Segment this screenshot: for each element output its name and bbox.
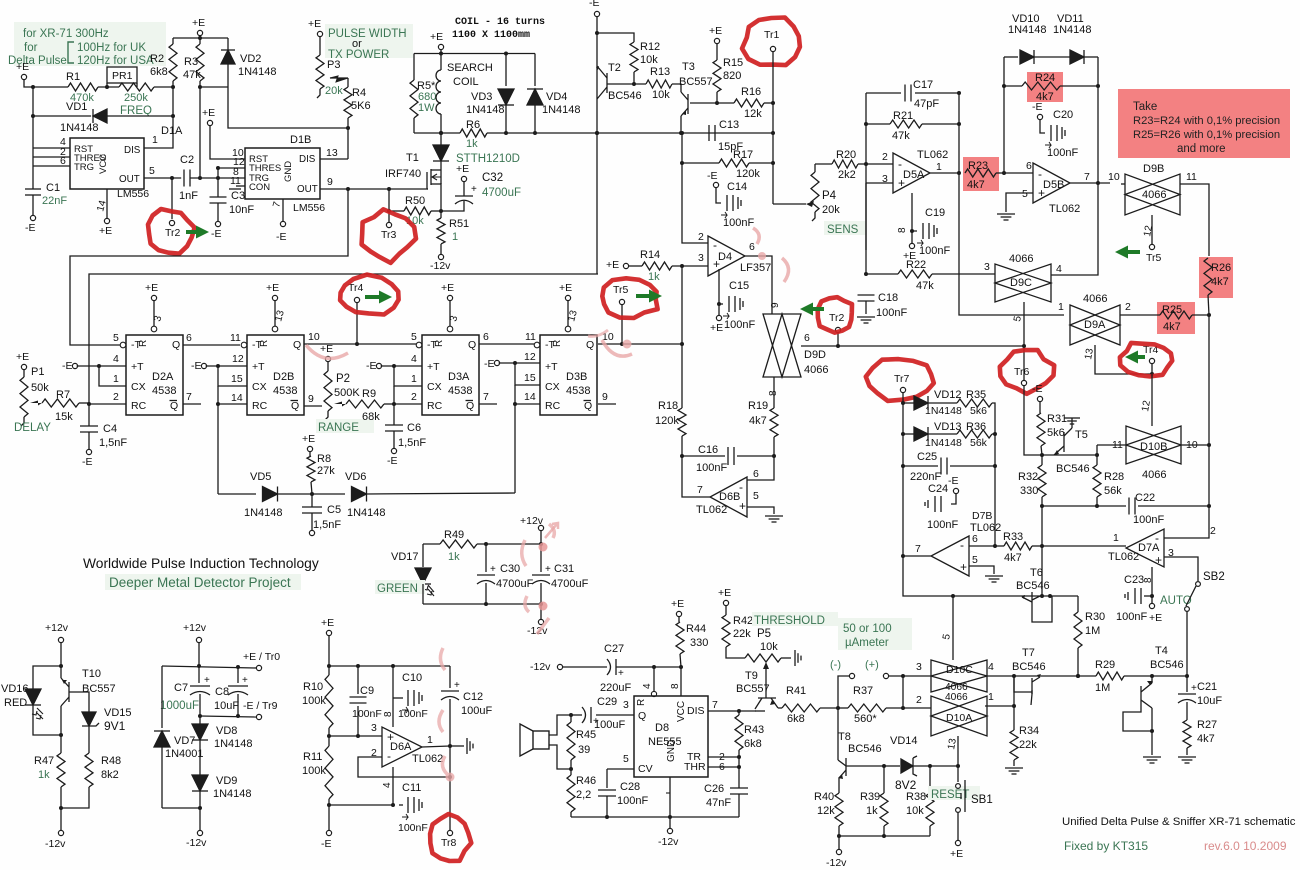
svg-text:CON: CON: [249, 182, 270, 193]
svg-text:Tr3: Tr3: [381, 229, 397, 241]
svg-text:+E: +E: [145, 282, 158, 294]
svg-text:Tr8: Tr8: [441, 837, 457, 849]
pink instruction box: [1118, 89, 1290, 158]
svg-text:D5B: D5B: [1043, 179, 1064, 191]
svg-text:RESET: RESET: [931, 789, 969, 801]
label PULSE WIDTH / TX POWER (green): [325, 24, 413, 58]
svg-text:R: R: [259, 340, 270, 347]
svg-text:56k: 56k: [970, 437, 988, 449]
potentiometer P4 20k SENS: [773, 203, 806, 205]
svg-text:THR: THR: [684, 761, 706, 773]
svg-text:-E: -E: [484, 358, 495, 370]
svg-text:T2: T2: [608, 62, 621, 74]
svg-text:-E: -E: [191, 360, 202, 372]
svg-text:1N4148: 1N4148: [1053, 24, 1092, 36]
label 50 or 100 uAmeter (green): [838, 618, 912, 650]
svg-text:T3: T3: [682, 61, 695, 73]
D5B pin5 to ground: [1006, 193, 1033, 212]
svg-text:100nF: 100nF: [352, 708, 382, 720]
svg-text:VCC: VCC: [676, 701, 687, 722]
svg-text:+E / Tr0: +E / Tr0: [243, 651, 280, 663]
svg-text:R33: R33: [1003, 531, 1023, 543]
svg-text:BC546: BC546: [848, 743, 882, 755]
D9D control bus to Tr2/Tr6: [801, 345, 1024, 347]
D1B THRES/TRG junction and C3: [218, 167, 245, 169]
svg-text:50k: 50k: [31, 382, 49, 394]
svg-text:39: 39: [578, 744, 590, 756]
test point Tr4 with red circle and green arrow: [356, 303, 358, 344]
green arrow at Tr4 second: [1125, 351, 1145, 364]
svg-text:20k: 20k: [822, 204, 840, 216]
svg-text:100Hz for UK: 100Hz for UK: [77, 42, 146, 54]
svg-text:4066: 4066: [945, 692, 968, 703]
svg-text:22nF: 22nF: [42, 195, 67, 207]
svg-text:47pF: 47pF: [914, 98, 939, 110]
svg-text:+E: +E: [456, 163, 469, 175]
svg-text:2k2: 2k2: [838, 169, 856, 181]
op-amp D5A TL062: [866, 163, 893, 165]
svg-text:C12: C12: [463, 691, 483, 703]
svg-text:6k8: 6k8: [787, 713, 805, 725]
svg-text:4700uF: 4700uF: [496, 578, 534, 590]
svg-text:100nF: 100nF: [919, 245, 950, 257]
resistor R23 4k7 (highlighted): [963, 157, 999, 191]
svg-text:4538: 4538: [566, 385, 590, 397]
svg-text:RC: RC: [545, 400, 561, 412]
svg-text:9: 9: [327, 176, 333, 188]
svg-text:11: 11: [230, 175, 241, 187]
offset column to R18: [681, 266, 683, 408]
svg-text:10nF: 10nF: [229, 204, 254, 216]
resistor R39 1k: [883, 766, 885, 793]
svg-text:Tr2: Tr2: [165, 227, 181, 239]
svg-text:-E: -E: [211, 228, 222, 240]
wire R33 to D7A output: [1042, 545, 1126, 547]
svg-text:Q: Q: [584, 400, 592, 412]
svg-text:15: 15: [231, 373, 243, 385]
svg-text:+12v: +12v: [45, 622, 69, 634]
D2A Q-bar pin7 stub: [183, 403, 201, 405]
svg-text:C6: C6: [407, 422, 421, 434]
svg-text:500K: 500K: [334, 387, 360, 399]
splitter mid rail: [200, 716, 256, 717]
svg-text:5k6: 5k6: [970, 405, 987, 417]
svg-text:+E: +E: [709, 25, 722, 37]
Tr7 column down: [902, 393, 904, 556]
svg-text:2,2: 2,2: [576, 789, 591, 801]
svg-text:2: 2: [698, 231, 704, 243]
svg-text:+E: +E: [950, 848, 963, 860]
svg-text:8k2: 8k2: [101, 769, 119, 781]
svg-text:100nF: 100nF: [876, 307, 907, 319]
svg-text:Take: Take: [1133, 101, 1157, 113]
svg-text:100nF: 100nF: [723, 217, 754, 229]
T3 collector to bus: [680, 116, 682, 133]
svg-text:LM556: LM556: [117, 188, 149, 200]
D6A feedback loop pin2: [358, 757, 450, 777]
svg-text:VD7: VD7: [174, 735, 195, 747]
resistor R45 39: [570, 715, 572, 722]
svg-text:220uF: 220uF: [600, 682, 631, 694]
svg-text:R2: R2: [150, 53, 164, 65]
svg-text:R46: R46: [576, 775, 596, 787]
svg-text:C31: C31: [554, 563, 574, 575]
svg-text:+E: +E: [671, 598, 684, 610]
svg-text:R3: R3: [184, 56, 198, 68]
bias rail: [328, 636, 330, 666]
svg-text:4k7: 4k7: [1197, 733, 1215, 745]
svg-text:+E: +E: [559, 282, 572, 294]
svg-text:+T: +T: [252, 361, 265, 373]
trimmer PR1 250k FREQ: [107, 67, 137, 83]
svg-text:BC557: BC557: [736, 683, 770, 695]
svg-text:R25=R26 with 0,1% precision: R25=R26 with 0,1% precision: [1133, 129, 1280, 141]
D3B Q pin10 to R18 column: [598, 343, 682, 345]
svg-text:C27: C27: [604, 643, 624, 655]
svg-text:2: 2: [113, 391, 119, 403]
D3A Q pin6 to D3B trigger: [479, 343, 537, 345]
svg-text:rev.6.0 10.2009: rev.6.0 10.2009: [1204, 839, 1287, 853]
svg-text:4538: 4538: [152, 385, 176, 397]
pink scribble near D2B output: [306, 345, 348, 358]
svg-text:100nF: 100nF: [1047, 147, 1078, 159]
svg-text:-: -: [713, 238, 717, 252]
test point Tr3: [388, 189, 390, 211]
svg-text:CX: CX: [252, 381, 267, 393]
svg-text:Q: Q: [291, 400, 299, 412]
svg-text:+E: +E: [192, 17, 205, 29]
diode VD1 1N4148 feedback: [33, 115, 91, 117]
svg-text:T1: T1: [406, 152, 419, 164]
svg-text:4k7: 4k7: [1004, 552, 1022, 564]
svg-text:R50: R50: [405, 195, 425, 207]
coil top rail: [440, 50, 442, 54]
svg-text:-E: -E: [948, 475, 959, 487]
resistor R25 4k7 (highlighted): [1157, 302, 1195, 334]
svg-text:VCC: VCC: [98, 154, 109, 174]
svg-text:Worldwide Pulse Induction Tech: Worldwide Pulse Induction Technology: [83, 556, 319, 571]
svg-text:100uF: 100uF: [594, 719, 625, 731]
D3B pin14 column down to VD6 row: [514, 385, 516, 493]
D1A pin stubs 4/2/6: [33, 147, 70, 149]
svg-text:SEARCH: SEARCH: [447, 62, 493, 74]
resistor R5* 680 1W damping: [413, 54, 415, 81]
svg-text:11: 11: [1186, 171, 1197, 183]
svg-text:C15: C15: [729, 280, 749, 292]
red circle around Tr2: [148, 209, 195, 254]
IC D8 NE555: [634, 696, 708, 777]
resistor R38 10k: [929, 766, 931, 793]
svg-text:PULSE WIDTH: PULSE WIDTH: [328, 28, 407, 40]
svg-text:T6: T6: [1030, 567, 1043, 579]
svg-text:120k: 120k: [736, 168, 760, 180]
svg-text:-12v: -12v: [530, 661, 551, 673]
resistor R40 12k: [838, 778, 840, 793]
svg-text:1N4001: 1N4001: [165, 748, 204, 760]
splitter bottom rail to -12v: [162, 807, 200, 809]
svg-text:47k: 47k: [916, 280, 934, 292]
wire VD pair ends: [1003, 57, 1005, 86]
svg-text:1: 1: [452, 231, 458, 243]
reset switch SB1: [928, 786, 980, 800]
svg-text:BC546: BC546: [608, 90, 642, 102]
terminal -12v bottom: [838, 836, 840, 849]
svg-text:68k: 68k: [362, 411, 380, 423]
svg-text:6: 6: [483, 331, 489, 343]
svg-text:100k: 100k: [302, 695, 326, 707]
svg-text:1,5nF: 1,5nF: [99, 437, 127, 449]
svg-text:R6: R6: [466, 119, 480, 131]
svg-text:T4: T4: [1155, 645, 1168, 657]
svg-text:+: +: [204, 675, 210, 686]
T2 base wire: [607, 83, 646, 85]
D9B output to R26 column: [1180, 184, 1209, 256]
svg-text:50 or 100: 50 or 100: [843, 623, 892, 635]
svg-text:R26: R26: [1211, 262, 1231, 274]
svg-text:µAmeter: µAmeter: [845, 637, 889, 649]
potentiometer P3 20k: [319, 37, 321, 55]
svg-text:BC557: BC557: [679, 76, 713, 88]
svg-text:100nF: 100nF: [1116, 611, 1147, 623]
svg-text:DELAY: DELAY: [14, 422, 51, 434]
svg-text:8: 8: [383, 711, 394, 717]
resistor R42 22k: [725, 606, 727, 615]
svg-text:VD9: VD9: [216, 775, 237, 787]
resistor R51 1 current sense: [440, 211, 442, 218]
svg-text:VD1: VD1: [66, 101, 87, 113]
svg-text:VD5: VD5: [250, 471, 271, 483]
D2B pin14 column down to VD5: [217, 386, 219, 494]
svg-text:4066: 4066: [1009, 253, 1033, 265]
svg-text:Deeper Metal Detector Project: Deeper Metal Detector Project: [109, 575, 291, 590]
svg-text:C28: C28: [620, 781, 640, 793]
svg-text:330: 330: [690, 637, 708, 649]
R26 column down to C22 row and D7A pin2: [1208, 315, 1210, 506]
pink scribble near Tr5: [602, 340, 632, 356]
pink scribble near P4: [753, 228, 759, 244]
svg-text:1N4148: 1N4148: [347, 507, 386, 519]
svg-text:5K6: 5K6: [351, 100, 371, 112]
svg-text:R15: R15: [723, 57, 743, 69]
svg-text:D9C: D9C: [1010, 277, 1032, 289]
test point Tr6 with red circle: [1021, 380, 1026, 385]
splitter top rail: [162, 666, 256, 668]
svg-text:C21: C21: [1197, 681, 1217, 693]
capacitor C2 1nF coupling: [183, 170, 185, 187]
IC D3A +E top pin 3: [447, 295, 452, 300]
svg-text:1: 1: [411, 373, 417, 385]
bus pin4 D10C to R29 row: [985, 675, 1096, 677]
capacitor C5 1,5nF: [311, 494, 313, 507]
svg-text:4: 4: [113, 353, 119, 365]
svg-text:12: 12: [524, 351, 536, 363]
svg-text:C10: C10: [402, 672, 422, 684]
svg-text:Tr6: Tr6: [1014, 366, 1030, 378]
resistor R32 330: [1038, 465, 1046, 497]
analog switch D9A 4066: [1070, 305, 1120, 345]
svg-text:C20: C20: [1053, 109, 1073, 121]
svg-text:+E: +E: [710, 322, 723, 334]
capacitor C1 22nF: [32, 166, 34, 189]
svg-text:VD13: VD13: [934, 421, 962, 433]
svg-text:5: 5: [972, 554, 978, 566]
svg-text:100nF: 100nF: [398, 822, 428, 834]
svg-text:RANGE: RANGE: [318, 422, 359, 434]
svg-text:VD8: VD8: [216, 725, 237, 737]
svg-text:22k: 22k: [1019, 739, 1037, 751]
op-amp D6B TL062 (points left): [710, 477, 747, 517]
resistor R15 820: [716, 44, 718, 60]
D2B Q pin10 to D3A trigger and Tr4: [304, 343, 419, 345]
svg-text:R4: R4: [352, 87, 366, 99]
D4 output to D9D: [745, 256, 772, 314]
T1 source down to R50/R51 node: [440, 183, 442, 211]
svg-text:2: 2: [882, 151, 888, 163]
svg-text:R22: R22: [906, 259, 926, 271]
node R1/R2 down to D1A DIS (pin1): [144, 87, 173, 148]
svg-text:Tr5: Tr5: [1146, 252, 1162, 264]
pink scribbles near D6A output: [439, 648, 447, 774]
svg-text:C4: C4: [103, 423, 117, 435]
svg-text:-12v: -12v: [658, 836, 679, 848]
svg-text:C13: C13: [719, 119, 739, 131]
svg-text:T9: T9: [745, 670, 758, 682]
svg-text:(-): (-): [830, 659, 841, 671]
svg-text:VD4: VD4: [546, 91, 567, 103]
capacitor C6 1,5nF: [393, 404, 395, 425]
capacitor C28 100nF: [598, 789, 616, 791]
green arrow at right Tr5: [1115, 246, 1140, 259]
diode VD4 1N4148: [534, 54, 536, 87]
green arrow at Tr2 second: [800, 303, 824, 316]
svg-text:TL062: TL062: [1108, 551, 1139, 563]
svg-text:12k: 12k: [817, 805, 835, 817]
capacitor C17 47pF: [866, 92, 901, 94]
svg-text:R14: R14: [640, 249, 660, 261]
svg-text:-E: -E: [387, 455, 398, 467]
svg-text:CX: CX: [131, 381, 146, 393]
svg-text:250k: 250k: [124, 92, 148, 104]
D1B CON stub pin 11: [229, 188, 241, 190]
svg-text:560*: 560*: [854, 713, 877, 725]
svg-text:1: 1: [1113, 532, 1119, 544]
svg-text:3: 3: [371, 722, 377, 734]
svg-text:+: +: [1155, 553, 1162, 567]
svg-text:D1B: D1B: [290, 134, 311, 146]
svg-text:Q: Q: [468, 339, 476, 351]
svg-text:6: 6: [60, 155, 66, 167]
svg-text:T5: T5: [1075, 429, 1088, 441]
svg-text:100nF: 100nF: [927, 519, 958, 531]
svg-text:R18: R18: [658, 400, 678, 412]
svg-text:-E: -E: [1032, 101, 1043, 113]
svg-text:10k: 10k: [760, 641, 778, 653]
svg-text:R42: R42: [733, 615, 753, 627]
svg-text:-: -: [960, 538, 964, 552]
svg-text:D10B: D10B: [1140, 441, 1168, 453]
svg-text:R44: R44: [686, 623, 706, 635]
svg-text:6: 6: [186, 332, 192, 344]
svg-text:20k: 20k: [325, 85, 343, 97]
svg-text:+: +: [1191, 683, 1197, 694]
svg-text:+: +: [545, 564, 551, 575]
P3 wiper arrow to R4: [330, 76, 348, 82]
svg-text:3: 3: [623, 699, 629, 711]
svg-text:Tr7: Tr7: [894, 373, 910, 385]
svg-text:D9B: D9B: [1143, 163, 1164, 175]
test point Tr2 terminal: [171, 178, 173, 219]
wire right column to D7B pin6: [994, 434, 996, 546]
svg-text:+E: +E: [308, 18, 321, 30]
svg-text:4k7: 4k7: [1211, 276, 1229, 288]
svg-text:5k6: 5k6: [1047, 427, 1065, 439]
svg-text:R30: R30: [1085, 611, 1105, 623]
svg-text:47nF: 47nF: [706, 797, 731, 809]
svg-text:OUT: OUT: [119, 174, 140, 185]
svg-text:+E: +E: [16, 351, 29, 363]
svg-text:4066: 4066: [804, 364, 828, 376]
svg-text:RED: RED: [4, 697, 27, 709]
svg-text:8: 8: [1143, 577, 1154, 583]
svg-text:C11: C11: [402, 782, 421, 794]
svg-text:1k: 1k: [38, 769, 50, 781]
D2A trigger bubble pin 5: [120, 342, 126, 348]
svg-text:R11: R11: [303, 751, 322, 763]
wire R13 to T3: [672, 84, 681, 92]
speaker: [533, 731, 549, 749]
svg-text:FREQ: FREQ: [120, 105, 152, 117]
T5 emitter row to R28: [1042, 454, 1097, 456]
D9C output pin4 to D5B output column: [1051, 183, 1098, 275]
svg-text:SENS: SENS: [827, 224, 859, 236]
R31/R32 column down to R33 row: [1041, 506, 1043, 546]
svg-text:1100 X 1100mm: 1100 X 1100mm: [452, 30, 530, 41]
svg-text:R34: R34: [1019, 725, 1039, 737]
svg-text:T7: T7: [1022, 647, 1035, 659]
svg-text:220nF: 220nF: [910, 471, 941, 483]
svg-text:-E: -E: [321, 838, 332, 850]
analog switch D10B 4066: [1126, 426, 1181, 464]
svg-text:for XR-71 300Hz: for XR-71 300Hz: [23, 28, 109, 40]
svg-text:1: 1: [427, 734, 433, 746]
resistor R28 56k: [1093, 465, 1101, 497]
svg-text:C25: C25: [917, 451, 937, 463]
svg-text:5: 5: [113, 332, 119, 344]
D8 GND pin1 to -12v: [669, 777, 671, 817]
svg-text:Unified Delta Pulse & Sniffer: Unified Delta Pulse & Sniffer XR-71 sche…: [1062, 816, 1296, 828]
capacitor C13 15pF: [708, 125, 710, 141]
svg-text:6: 6: [749, 241, 755, 253]
receiver input column segment (T3 collector to pin2): [682, 133, 708, 243]
svg-text:VD17: VD17: [391, 551, 419, 563]
svg-text:R37: R37: [853, 685, 873, 697]
svg-text:C32: C32: [482, 172, 503, 184]
svg-text:2: 2: [916, 694, 922, 706]
svg-text:R20: R20: [836, 149, 856, 161]
svg-text:D7A: D7A: [1138, 542, 1160, 554]
svg-text:+T: +T: [131, 361, 144, 373]
svg-text:RC: RC: [427, 400, 443, 412]
svg-text:D1A: D1A: [161, 125, 183, 137]
resistor R31 5k6: [1039, 402, 1041, 413]
svg-text:10: 10: [308, 331, 320, 343]
svg-text:820: 820: [723, 70, 741, 82]
D3A Q-bar pin7 stub: [479, 403, 497, 405]
svg-text:C14: C14: [727, 181, 747, 193]
svg-text:LF357: LF357: [740, 262, 771, 274]
svg-text:4066: 4066: [1142, 189, 1166, 201]
wire R1 to PR1 junction: [98, 86, 119, 88]
